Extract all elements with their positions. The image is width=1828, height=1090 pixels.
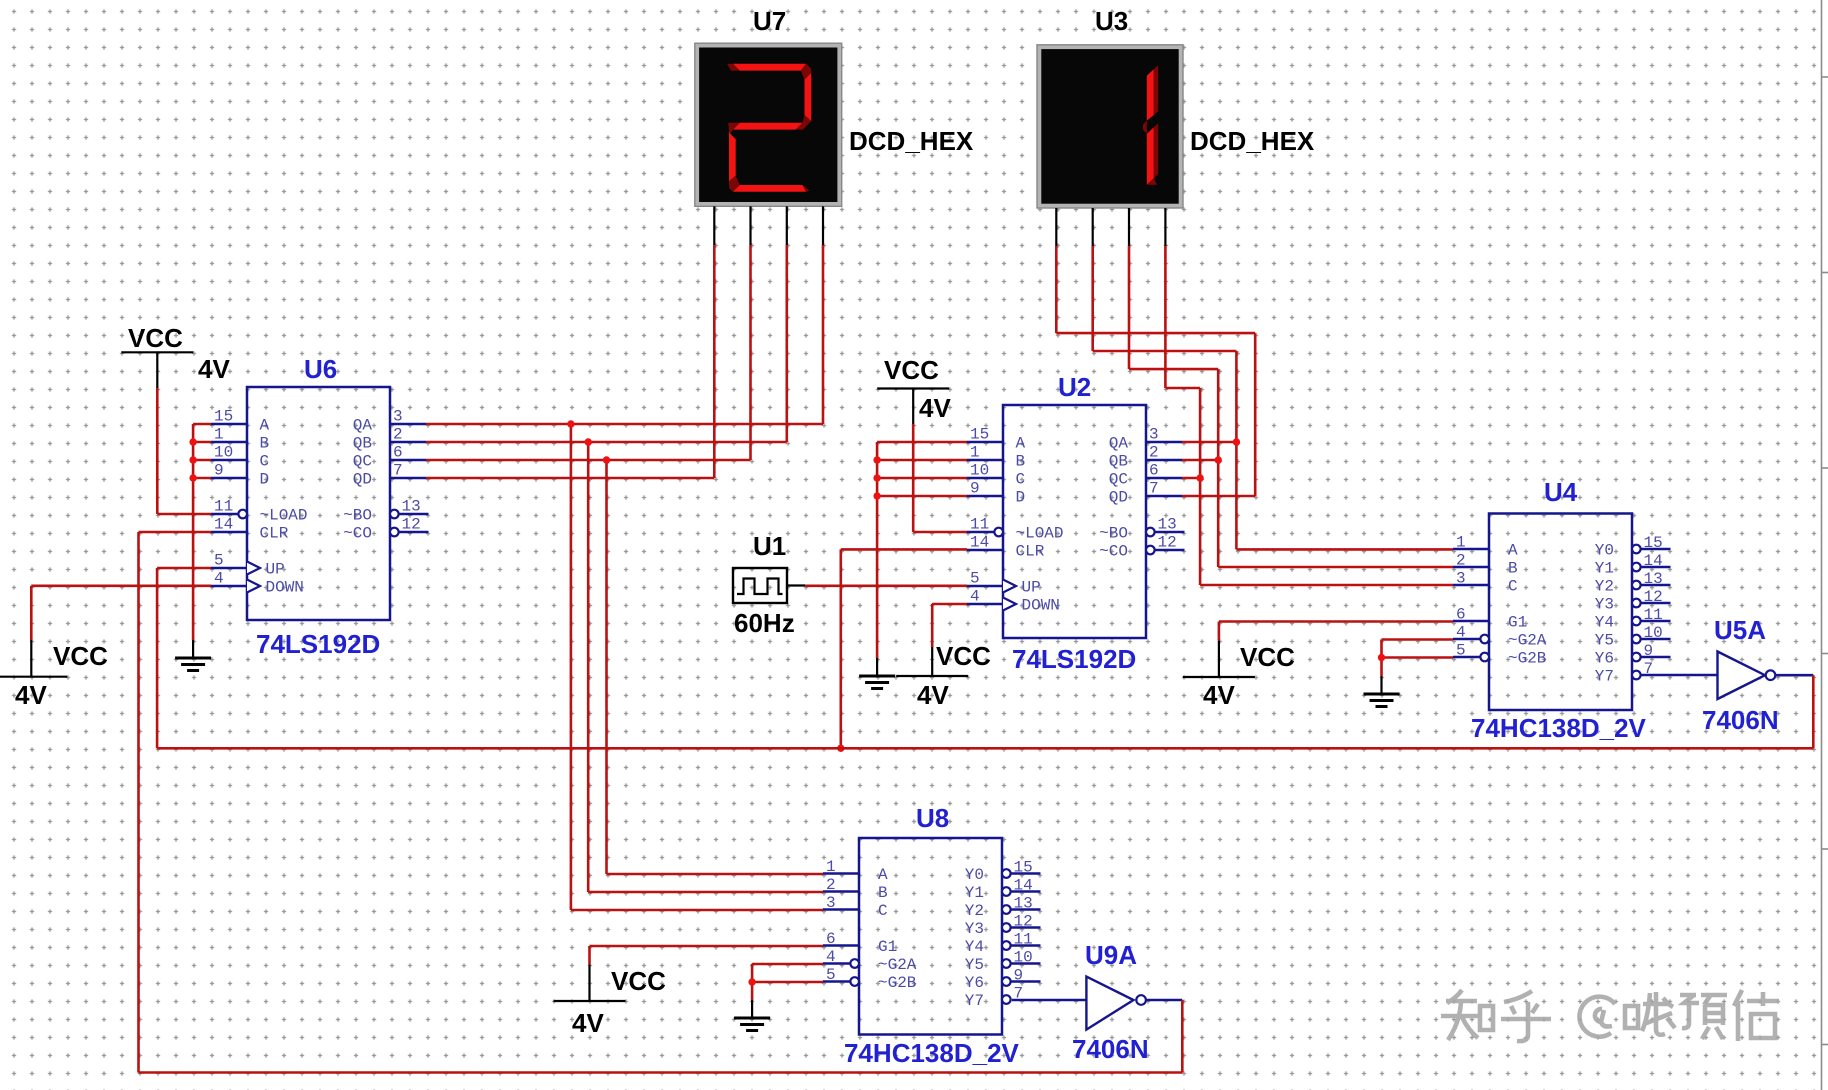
U2 pin 9 D (left)	[967, 480, 1025, 507]
svg-text:2: 2	[826, 876, 836, 894]
svg-text:QD: QD	[1109, 489, 1128, 507]
U6 pin 9 D (left)	[211, 462, 269, 489]
U6 pin 7 QD (right)	[353, 462, 426, 489]
svg-text:QC: QC	[1109, 471, 1128, 489]
svg-text:1: 1	[970, 444, 980, 462]
U9A input wire from U8 Y7	[1012, 999, 1087, 1002]
V6 VCC label	[611, 966, 666, 996]
svg-text:9: 9	[214, 462, 224, 480]
V4 value label 4V	[917, 680, 949, 710]
svg-text:CLR: CLR	[1016, 543, 1045, 561]
U9A value label 7406N	[1072, 1034, 1149, 1064]
svg-text:74HC138D_2V: 74HC138D_2V	[844, 1038, 1020, 1068]
svg-text:A: A	[260, 417, 270, 435]
U4 refdes label	[1544, 477, 1578, 507]
U4 pin 1 A (left)	[1453, 534, 1518, 560]
display U7 DCD_HEX body	[695, 43, 842, 206]
svg-text:~CO: ~CO	[343, 525, 372, 543]
svg-text:15: 15	[970, 426, 989, 444]
U7 digit 2 segment a (top)	[727, 64, 811, 80]
svg-text:13: 13	[1158, 516, 1177, 534]
svg-text:B: B	[1016, 453, 1026, 471]
svg-text:13: 13	[1644, 570, 1663, 588]
svg-text:A: A	[1508, 542, 1518, 560]
U2 value label 74LS192D	[1012, 644, 1136, 674]
svg-text:15: 15	[1644, 534, 1663, 552]
wire net QC-U6 to display U7 pin2	[426, 245, 751, 460]
U6 pin 1 B (left)	[211, 426, 269, 453]
U7 digit 2 segment b (upper right)	[796, 73, 812, 130]
U9A refdes label	[1085, 940, 1137, 970]
U6 pin 11 ~LOAD (left, inverted)	[211, 498, 308, 525]
U5A value label 7406N	[1702, 705, 1779, 735]
U6 pin 2 QB (right)	[353, 426, 426, 453]
svg-text:12: 12	[1014, 913, 1033, 931]
U4 pin 6 G1 (left)	[1453, 606, 1527, 632]
svg-text:4V: 4V	[15, 680, 47, 710]
svg-text:UP: UP	[1022, 579, 1041, 597]
svg-text:UP: UP	[266, 561, 285, 579]
svg-text:B: B	[1508, 560, 1518, 578]
svg-text:Y1: Y1	[1595, 560, 1614, 578]
svg-text:5: 5	[214, 552, 224, 570]
U7 refdes label	[753, 6, 786, 36]
U2 pin 13 ~BO (right, inverted)	[1099, 516, 1184, 543]
junction U2 B input	[873, 456, 880, 463]
svg-text:10: 10	[214, 444, 233, 462]
U4 pin 11 Y4 output (right, inverted)	[1595, 606, 1671, 632]
power VCC symbol V5 (U4 G1) bar	[1183, 641, 1255, 677]
U6 pin 14 CLR (left)	[211, 516, 289, 543]
wire U8 ~G2A ~G2B to ground GND4	[752, 964, 823, 1000]
U8 pin 5 ~G2B (left, inverted)	[823, 966, 916, 992]
U9A output wire	[1146, 999, 1182, 1002]
wire net QB-U2 to display U3 pin3 and U4 B	[1129, 246, 1453, 567]
svg-text:~LOAD: ~LOAD	[260, 507, 308, 525]
wire net QB-U6 to display U7 pin3	[426, 245, 787, 442]
wire net QA-U6 to display U7 pin4	[426, 245, 823, 424]
V3 value label 4V	[919, 393, 951, 423]
svg-text:6: 6	[393, 444, 403, 462]
svg-text:VCC: VCC	[884, 355, 939, 385]
svg-text:10: 10	[970, 462, 989, 480]
V4 VCC label	[936, 641, 991, 671]
U8 pin 13 Y2 output (right, inverted)	[965, 895, 1041, 921]
svg-text:5: 5	[826, 966, 836, 984]
svg-text:11: 11	[970, 516, 989, 534]
V1 VCC label	[128, 323, 183, 353]
svg-text:QC: QC	[353, 453, 372, 471]
V5 value label 4V	[1203, 680, 1235, 710]
svg-text:U2: U2	[1058, 372, 1091, 402]
U8 pin 3 C (left)	[823, 894, 888, 920]
U8 pin 11 Y4 output (right, inverted)	[965, 931, 1041, 957]
svg-text:1: 1	[214, 426, 224, 444]
svg-text:Y6: Y6	[1595, 650, 1614, 668]
svg-text:Y4: Y4	[1595, 614, 1614, 632]
U7 display pins	[714, 206, 823, 245]
V2 VCC label	[53, 641, 108, 671]
U4 pin 13 Y2 output (right, inverted)	[1595, 570, 1671, 596]
junction U6 C input	[189, 456, 196, 463]
junction QA-U6 tap	[567, 420, 574, 427]
svg-text:U7: U7	[753, 6, 786, 36]
svg-text:14: 14	[970, 534, 989, 552]
svg-text:3: 3	[1456, 570, 1466, 588]
svg-text:~BO: ~BO	[343, 507, 372, 525]
svg-text:Y7: Y7	[1595, 668, 1614, 686]
svg-text:5: 5	[970, 570, 980, 588]
U8 pin 15 Y0 output (right, inverted)	[965, 859, 1041, 885]
junction U8 ~G2B	[748, 978, 755, 985]
V5 VCC label	[1240, 642, 1295, 672]
svg-text:D: D	[1016, 489, 1026, 507]
ground symbol GND2 (U2 data inputs)	[859, 658, 895, 689]
svg-text:4: 4	[826, 948, 836, 966]
svg-text:4V: 4V	[572, 1008, 604, 1038]
svg-text:7406N: 7406N	[1072, 1034, 1149, 1064]
U4 pin 5 ~G2B (left, inverted)	[1453, 642, 1546, 668]
decoder U8 74HC138D_2V box	[859, 838, 1002, 1035]
wire net QC-U6 tap down to U8 A	[607, 460, 824, 874]
wire feedback net U5A output to U6 UP	[157, 568, 1813, 748]
wire VCC V5 to U4 G1	[1219, 622, 1453, 641]
U4 pin 4 ~G2A (left, inverted)	[1453, 624, 1547, 650]
U4 pin 15 Y0 output (right, inverted)	[1595, 534, 1671, 560]
U3 value label DCD_HEX	[1190, 126, 1315, 156]
svg-text:Y2: Y2	[965, 902, 984, 920]
svg-text:VCC: VCC	[1240, 642, 1295, 672]
junction QC-U6 tap	[603, 456, 610, 463]
U2 pin 3 QA (right)	[1109, 426, 1182, 453]
svg-text:A: A	[878, 866, 888, 884]
svg-text:~G2B: ~G2B	[878, 974, 916, 992]
svg-text:DCD_HEX: DCD_HEX	[1190, 126, 1315, 156]
svg-text:U3: U3	[1095, 6, 1128, 36]
svg-text:QA: QA	[1109, 435, 1129, 453]
U6 refdes label	[304, 354, 337, 384]
U2 pin 11 ~LOAD (left, inverted)	[967, 516, 1064, 543]
ground symbol GND4 (U8 enables)	[734, 1000, 770, 1031]
U2 pin 10 C (left)	[967, 462, 1025, 489]
U4 pin 3 C (left)	[1453, 570, 1518, 596]
display U3 DCD_HEX body	[1037, 45, 1183, 208]
U8 pin 9 Y6 output (right, inverted)	[965, 967, 1041, 993]
counter U2 74LS192D box	[1003, 405, 1146, 638]
svg-text:3: 3	[1149, 426, 1159, 444]
svg-text:QD: QD	[353, 471, 372, 489]
U3 digit 1 segment b (upper right)	[1147, 65, 1158, 120]
svg-text:4: 4	[1456, 624, 1466, 642]
svg-text:6: 6	[1456, 606, 1466, 624]
U6 pin 3 QA (right)	[353, 408, 426, 435]
svg-text:14: 14	[1014, 877, 1033, 895]
U5A output wire	[1775, 674, 1813, 677]
svg-text:13: 13	[402, 498, 421, 516]
U4 pin 12 Y3 output (right, inverted)	[1595, 588, 1671, 614]
U8 pin 12 Y3 output (right, inverted)	[965, 913, 1041, 939]
U7 value label DCD_HEX	[849, 126, 974, 156]
U8 pin 2 B (left)	[823, 876, 888, 902]
svg-text:Y3: Y3	[1595, 596, 1614, 614]
wire U4 ~G2A ~G2B to ground GND3	[1382, 640, 1454, 677]
wire net QA-U2 to display U3 pin2 and U4 A	[1093, 246, 1453, 549]
U7 digit 2 segment g (middle)	[728, 123, 802, 135]
svg-text:G1: G1	[1508, 614, 1527, 632]
wire feedback net U9A output to U6 CLR	[139, 532, 1183, 1073]
wire net QB-U6 tap down to U8 B	[588, 442, 823, 892]
svg-text:4V: 4V	[919, 393, 951, 423]
svg-text:DOWN: DOWN	[1022, 597, 1060, 615]
svg-text:D: D	[260, 471, 270, 489]
clock source U1 box	[733, 568, 787, 603]
svg-text:1: 1	[826, 858, 836, 876]
junction QB-U2	[1215, 456, 1222, 463]
svg-text:DCD_HEX: DCD_HEX	[849, 126, 974, 156]
svg-text:Y2: Y2	[1595, 578, 1614, 596]
junction U2 C input	[873, 474, 880, 481]
junction U4 ~G2B	[1378, 654, 1385, 661]
svg-text:7: 7	[1149, 480, 1159, 498]
U8 pin 6 G1 (left)	[823, 930, 897, 956]
U4 value label 74HC138D_2V	[1471, 713, 1647, 743]
U6 pin 12 ~CO (right, inverted)	[343, 516, 428, 543]
svg-text:4V: 4V	[1203, 680, 1235, 710]
wire U2 A B C D inputs to ground GND2	[877, 442, 967, 658]
svg-text:C: C	[878, 902, 888, 920]
wire net QC-U2 to display U3 pin4 and U4 C	[1165, 246, 1453, 585]
svg-text:6: 6	[1149, 462, 1159, 480]
svg-text:13: 13	[1014, 895, 1033, 913]
inverter U5A 7406N triangle	[1718, 652, 1776, 700]
U2 pin 4 DOWN clock input	[967, 588, 1060, 615]
svg-text:14: 14	[1644, 552, 1663, 570]
svg-text:DOWN: DOWN	[266, 579, 304, 597]
svg-text:~LOAD: ~LOAD	[1016, 525, 1064, 543]
svg-text:~G2A: ~G2A	[878, 956, 917, 974]
svg-text:10: 10	[1644, 624, 1663, 642]
U8 pin 14 Y1 output (right, inverted)	[965, 877, 1041, 903]
U2 pin 2 QB (right)	[1109, 444, 1182, 471]
wire VCC V4 to U2 DOWN	[932, 604, 967, 647]
V3 VCC label	[884, 355, 939, 385]
svg-text:Y5: Y5	[965, 956, 984, 974]
wire net QD-U6 to display U7 pin1	[426, 245, 714, 478]
power VCC symbol V4 (U2 DOWN) bar	[896, 647, 968, 676]
U3 digit 1 segment c (lower right)	[1143, 121, 1158, 185]
svg-text:6: 6	[826, 930, 836, 948]
U8 pin 4 ~G2A (left, inverted)	[823, 948, 917, 974]
power VCC symbol V6 (U8 G1) bar	[554, 965, 626, 1002]
U4 pin 10 Y5 output (right, inverted)	[1595, 624, 1671, 650]
U6 pin 10 C (left)	[211, 444, 269, 471]
U8 refdes label	[916, 803, 949, 833]
svg-text:3: 3	[826, 894, 836, 912]
svg-text:Y4: Y4	[965, 938, 984, 956]
svg-text:U6: U6	[304, 354, 337, 384]
svg-text:12: 12	[402, 516, 421, 534]
ground symbol GND1 (U6 data inputs)	[175, 640, 211, 671]
counter U6 74LS192D box	[247, 387, 390, 620]
power VCC symbol V1 (U6 ~LOAD) bar	[121, 352, 193, 388]
svg-text:4: 4	[214, 570, 224, 588]
svg-text:12: 12	[1158, 534, 1177, 552]
svg-text:VCC: VCC	[611, 966, 666, 996]
wire net QA-U6 tap down to U8 C	[571, 424, 823, 910]
svg-text:10: 10	[1014, 949, 1033, 967]
U4 pin 7 Y7 output (right, inverted)	[1595, 660, 1653, 686]
svg-text:U8: U8	[916, 803, 949, 833]
U1 value label 60Hz	[734, 608, 795, 638]
junction QA-U2	[1233, 438, 1240, 445]
svg-text:G1: G1	[878, 938, 897, 956]
svg-text:C: C	[1508, 578, 1518, 596]
svg-text:9: 9	[1644, 642, 1654, 660]
U5A refdes label	[1714, 615, 1766, 645]
svg-text:U5A: U5A	[1714, 615, 1766, 645]
svg-text:Y3: Y3	[965, 920, 984, 938]
wire VCC V1 to U6 ~LOAD	[157, 388, 211, 514]
svg-text:12: 12	[1644, 588, 1663, 606]
svg-text:Y7: Y7	[965, 992, 984, 1010]
svg-text:7406N: 7406N	[1702, 705, 1779, 735]
junction U2 D input	[873, 492, 880, 499]
svg-text:U1: U1	[753, 531, 786, 561]
svg-text:Y5: Y5	[1595, 632, 1614, 650]
svg-text:11: 11	[214, 498, 233, 516]
svg-text:15: 15	[214, 408, 233, 426]
svg-text:2: 2	[1456, 552, 1466, 570]
U4 pin 2 B (left)	[1453, 552, 1518, 578]
U6 pin 15 A (left)	[211, 408, 270, 435]
svg-text:2: 2	[1149, 444, 1159, 462]
U8 value label 74HC138D_2V	[844, 1038, 1020, 1068]
svg-text:VCC: VCC	[53, 641, 108, 671]
U1 output pin	[787, 584, 805, 586]
V6 value label 4V	[572, 1008, 604, 1038]
U2 pin 1 B (left)	[967, 444, 1025, 471]
junction QC-U2	[1196, 474, 1203, 481]
svg-text:QA: QA	[353, 417, 373, 435]
svg-text:3: 3	[393, 408, 403, 426]
U2 pin 5 UP clock input	[967, 570, 1041, 597]
U4 pin 9 Y6 output (right, inverted)	[1595, 642, 1671, 668]
svg-text:9: 9	[970, 480, 980, 498]
power VCC symbol V3 (U2 ~LOAD) bar	[877, 389, 949, 425]
svg-text:74LS192D: 74LS192D	[1012, 644, 1136, 674]
svg-text:4: 4	[970, 588, 980, 606]
U2 pin 6 QC (right)	[1109, 462, 1182, 489]
junction QB-U6 tap	[585, 438, 592, 445]
ground symbol GND3 (U4 enables)	[1364, 676, 1400, 707]
watermark zhihu @ text	[1441, 990, 1779, 1041]
svg-text:4V: 4V	[198, 354, 230, 384]
U6 pin 13 ~BO (right, inverted)	[343, 498, 428, 525]
svg-text:11: 11	[1644, 606, 1663, 624]
U2 pin 15 A (left)	[967, 426, 1026, 453]
U2 refdes label	[1058, 372, 1091, 402]
svg-text:Y1: Y1	[965, 884, 984, 902]
svg-text:5: 5	[1456, 642, 1466, 660]
svg-text:4V: 4V	[917, 680, 949, 710]
svg-text:74LS192D: 74LS192D	[256, 629, 380, 659]
U3 display pins	[1056, 208, 1165, 246]
svg-text:C: C	[260, 453, 270, 471]
U8 pin 1 A (left)	[823, 858, 888, 884]
svg-text:U9A: U9A	[1085, 940, 1137, 970]
svg-text:VCC: VCC	[936, 641, 991, 671]
svg-text:2: 2	[393, 426, 403, 444]
V2 value label 4V	[15, 680, 47, 710]
svg-text:CLR: CLR	[260, 525, 289, 543]
wire VCC V3 to U2 ~LOAD	[913, 424, 967, 532]
U4 pin 14 Y1 output (right, inverted)	[1595, 552, 1671, 578]
svg-text:~G2A: ~G2A	[1508, 632, 1547, 650]
wire clock U1 output to U2 UP	[805, 584, 967, 587]
decoder U4 74HC138D_2V box	[1489, 514, 1632, 711]
svg-text:U4: U4	[1544, 477, 1578, 507]
power VCC symbol V2 (U6 DOWN) bar	[0, 640, 67, 677]
wire VCC V6 to U8 G1	[590, 946, 824, 965]
svg-text:Y6: Y6	[965, 974, 984, 992]
svg-text:60Hz: 60Hz	[734, 608, 795, 638]
U8 pin 7 Y7 output (right, inverted)	[965, 985, 1023, 1011]
junction U2 CLR feedback	[837, 745, 844, 752]
svg-text:QB: QB	[1109, 453, 1128, 471]
svg-text:Y0: Y0	[1595, 542, 1614, 560]
U8 pin 10 Y5 output (right, inverted)	[965, 949, 1041, 975]
U6 value label 74LS192D	[256, 629, 380, 659]
U2 pin 12 ~CO (right, inverted)	[1099, 534, 1184, 561]
wire U6 A B C D inputs to ground GND1	[193, 424, 211, 640]
U6 pin 4 DOWN clock input	[211, 570, 304, 597]
U1 refdes label	[753, 531, 786, 561]
svg-text:VCC: VCC	[128, 323, 183, 353]
window border right edge	[1822, 0, 1828, 1090]
svg-text:1: 1	[1456, 534, 1466, 552]
U3 refdes label	[1095, 6, 1128, 36]
U7 digit 2 segment d (bottom)	[733, 185, 810, 192]
svg-text:74HC138D_2V: 74HC138D_2V	[1471, 713, 1647, 743]
junction U6 B input	[189, 438, 196, 445]
svg-text:7: 7	[393, 462, 403, 480]
svg-text:15: 15	[1014, 859, 1033, 877]
svg-text:9: 9	[1014, 967, 1024, 985]
svg-text:B: B	[878, 884, 888, 902]
svg-text:Y0: Y0	[965, 866, 984, 884]
wire VCC V2 to U6 DOWN	[31, 586, 211, 640]
U6 pin 5 UP clock input	[211, 552, 285, 579]
junction U6 D input	[189, 474, 196, 481]
svg-text:11: 11	[1014, 931, 1033, 949]
U5A input wire from U4 Y7	[1641, 674, 1718, 677]
V1 value label 4V	[198, 354, 230, 384]
U6 pin 6 QC (right)	[353, 444, 426, 471]
svg-text:B: B	[260, 435, 270, 453]
svg-text:14: 14	[214, 516, 233, 534]
svg-text:A: A	[1016, 435, 1026, 453]
svg-text:QB: QB	[353, 435, 372, 453]
svg-text:C: C	[1016, 471, 1026, 489]
U7 digit 2 segment e (lower left)	[729, 132, 740, 191]
inverter U9A 7406N triangle	[1086, 977, 1145, 1030]
wire U2 CLR to feedback net	[841, 549, 967, 748]
svg-text:~BO: ~BO	[1099, 525, 1128, 543]
wire net QD-U2 to display U3 pin1	[1056, 246, 1255, 496]
U2 pin 7 QD (right)	[1109, 480, 1182, 507]
svg-text:~G2B: ~G2B	[1508, 650, 1546, 668]
U2 pin 14 CLR (left)	[967, 534, 1045, 561]
